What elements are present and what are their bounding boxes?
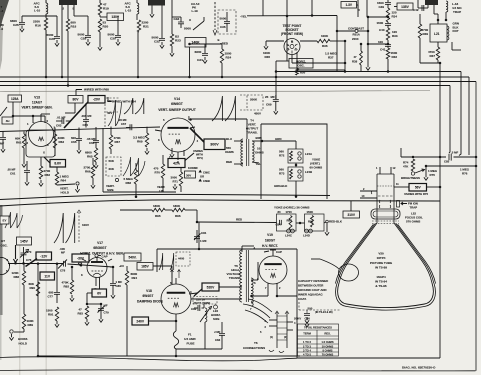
svg-text:C90: C90 (305, 317, 311, 321)
svg-text:6800: 6800 (195, 50, 202, 54)
ground above table (305, 322, 309, 327)
svg-text:COAT.: COAT. (298, 297, 307, 301)
coil L23 horiz size (203, 304, 205, 308)
box 540V (124, 253, 141, 261)
capacitor C66 (95, 127, 97, 140)
svg-text:C78: C78 (60, 269, 66, 273)
svg-text:310V: 310V (348, 213, 356, 217)
resistor R50 label (296, 69, 299, 76)
svg-text:=RED: =RED (220, 42, 229, 46)
svg-text:HOLD: HOLD (61, 191, 70, 195)
switch diagonal (193, 21, 204, 30)
B+ bus wire 3 (0, 81, 476, 83)
svg-text:C25: C25 (13, 23, 19, 27)
waveform curves near vert size (123, 157, 145, 176)
capacitor C25 (21, 16, 23, 22)
scan shadow left edge middle (0, 205, 3, 315)
svg-text:DAMPING DIODE: DAMPING DIODE (137, 300, 163, 304)
ground arrow near V14 pins (173, 184, 177, 190)
resistors R95 R96 horizontal (120, 209, 152, 211)
svg-text:C66: C66 (89, 141, 95, 145)
faint crease line below bus (0, 91, 430, 92)
box 185V (137, 263, 153, 271)
IF can secondary wire (451, 42, 453, 50)
svg-text:L24C: L24C (285, 234, 292, 238)
svg-text:R70: R70 (155, 171, 161, 175)
svg-text:V17: V17 (97, 241, 103, 245)
V19 bottom pins (267, 284, 269, 297)
svg-text:1.5 OHMS: 1.5 OHMS (321, 340, 333, 344)
ion trap (397, 201, 400, 208)
svg-text:L21: L21 (434, 32, 440, 36)
big sawtooth waveform (212, 96, 235, 121)
yoke coil L24B (288, 167, 303, 181)
capacitor C39 (387, 0, 389, 2)
yoke horiz cell L24D (305, 214, 325, 231)
wire x276 through bus to C69 (275, 61, 277, 99)
box 56V (394, 186, 409, 188)
wire between yoke horiz cells (296, 222, 305, 224)
svg-text:R71: R71 (173, 180, 179, 184)
svg-text:R62: R62 (45, 173, 51, 177)
svg-text:6BG6GT: 6BG6GT (93, 246, 106, 250)
svg-text:R38: R38 (352, 60, 358, 64)
capacitor C76 variable (23, 247, 25, 253)
svg-text:WIRED WITH R68: WIRED WITH R68 (84, 88, 109, 92)
outer page border right (475, 82, 477, 371)
box 11V thick (40, 272, 55, 280)
svg-text:4400: 4400 (178, 257, 185, 261)
brightness network wire (400, 148, 402, 157)
svg-text:-20V: -20V (93, 98, 101, 102)
resistor R92 (71, 267, 73, 280)
resistor R63 (54, 128, 56, 135)
svg-text:1 TO 2: 1 TO 2 (303, 340, 311, 344)
svg-text:C30: C30 (110, 37, 116, 41)
svg-text:R32: R32 (392, 55, 398, 59)
B+ bus wire 4 (0, 85, 450, 87)
V18 cathode wire and fuse F1 (175, 314, 177, 331)
svg-text:11V: 11V (44, 274, 50, 278)
socket right wire resistor R36 (300, 40, 317, 42)
capacitor C65 (78, 128, 80, 139)
resistor R66 (92, 158, 94, 165)
svg-text:L-19: L-19 (192, 9, 199, 13)
scan shadow top-left corner (0, 0, 9, 30)
svg-text:R93: R93 (78, 312, 84, 316)
left waveform curves (5, 212, 23, 228)
svg-text:VARIES WITH R75: VARIES WITH R75 (404, 192, 428, 196)
box -30V thick (72, 254, 89, 262)
wire between yoke coils (295, 163, 297, 167)
box 125A (8, 95, 22, 102)
svg-text:HOLD: HOLD (19, 342, 28, 346)
wire 125A to tube top (12, 102, 14, 116)
svg-text:10 OHMS: 10 OHMS (322, 344, 334, 348)
capacitor C42 (418, 7, 428, 9)
svg-text:CONTRAST: CONTRAST (348, 27, 364, 31)
resistor R67 (110, 127, 112, 136)
svg-text:.005 MF: .005 MF (81, 114, 92, 118)
spine rung to C41 (368, 43, 388, 45)
svg-text:GRN-BLK: GRN-BLK (274, 184, 288, 188)
svg-text:R73: R73 (279, 172, 285, 176)
box HORIZ OSC (289, 59, 313, 69)
capacity pickup ellipse (339, 264, 359, 281)
inner border left edge x297 (296, 249, 298, 358)
capacitor C80 (112, 267, 114, 283)
svg-text:OSC.: OSC. (1, 244, 8, 248)
capacitor C90 (304, 314, 310, 316)
left edge box 4H (2, 117, 13, 124)
svg-text:X: X (189, 18, 191, 22)
svg-text:150K: 150K (307, 210, 314, 214)
svg-text:6W6GT: 6W6GT (171, 102, 184, 106)
svg-text:R61: R61 (16, 141, 22, 145)
T6 cable curves (243, 299, 272, 323)
V17 top cap (95, 254, 98, 257)
page crease vertical left (19, 0, 20, 375)
tube V17 (87, 258, 107, 278)
svg-text:520V: 520V (207, 285, 216, 289)
svg-text:SIZE: SIZE (107, 188, 114, 192)
svg-text:C79: C79 (104, 311, 110, 315)
svg-text:C42: C42 (413, 8, 419, 12)
svg-text:VERT. SWEEP GEN.: VERT. SWEEP GEN. (21, 106, 52, 110)
yoke enclosure box (261, 124, 327, 199)
svg-text:WITH: WITH (196, 153, 203, 157)
svg-text:EY: EY (2, 218, 6, 222)
resistor R62 (40, 157, 42, 166)
svg-text:T6: T6 (254, 341, 258, 345)
svg-text:MF: MF (61, 251, 65, 255)
inner border bottom edge (297, 357, 440, 359)
svg-text:MF: MF (0, 142, 4, 146)
long wire x38 to bottom bus (37, 264, 39, 356)
svg-text:C80: C80 (116, 284, 122, 288)
svg-text:-4: -4 (1, 9, 4, 13)
box 80V (68, 96, 83, 104)
V17 pins (82, 259, 86, 261)
svg-text:C33: C33 (174, 17, 180, 21)
svg-text:2000: 2000 (352, 37, 359, 41)
capacitor C79 (100, 304, 102, 308)
svg-text:R35: R35 (265, 55, 271, 59)
wire node top-left (22, 15, 57, 17)
svg-text:R33: R33 (392, 34, 398, 38)
resistor R16 (44, 18, 47, 30)
svg-text:R36: R36 (322, 44, 328, 48)
svg-text:C81: C81 (201, 231, 207, 235)
B+ bus wire 2 (0, 76, 469, 78)
yoke coil L24A (288, 149, 303, 163)
svg-text:C39: C39 (379, 5, 385, 9)
svg-text:OR: OR (200, 175, 204, 179)
box 310V (350, 201, 352, 211)
svg-text:RED: RED (226, 160, 232, 164)
svg-text:L24D: L24D (303, 234, 310, 238)
dashed waveform box 50K (106, 157, 121, 176)
dashed box 150 1A (193, 297, 217, 305)
label 100V waveform (54, 213, 75, 243)
svg-text:100K: 100K (321, 34, 329, 38)
socket bottom wires (291, 55, 293, 64)
svg-text:C84: C84 (276, 223, 282, 227)
resistor R21 (137, 20, 140, 32)
svg-text:180K: 180K (153, 204, 161, 208)
svg-text:C26: C26 (49, 37, 55, 41)
svg-text:12AU7: 12AU7 (32, 101, 42, 105)
svg-text:C65: C65 (71, 140, 77, 144)
resistor R61 (23, 132, 25, 135)
svg-text:R66: R66 (85, 170, 91, 174)
svg-text:30V: 30V (186, 173, 191, 177)
svg-text:56V: 56V (415, 186, 422, 190)
dashed capacity connection (299, 302, 341, 310)
tube V16 fragment (0, 257, 10, 274)
wire tube pin to bus (61, 5, 63, 77)
svg-text:R24: R24 (226, 56, 232, 60)
svg-text:R34: R34 (392, 15, 398, 19)
svg-text:25: 25 (265, 95, 269, 99)
svg-text:(IN TS-94 & 95): (IN TS-94 & 95) (315, 311, 333, 314)
resistor R18 (67, 5, 69, 19)
svg-text:VARIES: VARIES (193, 149, 203, 153)
svg-text:INNER AQUADAG: INNER AQUADAG (298, 293, 323, 297)
svg-text:20K: 20K (109, 167, 115, 171)
svg-text:570 OHMS: 570 OHMS (406, 220, 420, 224)
svg-text:(BOTT. TERM): (BOTT. TERM) (194, 302, 211, 305)
svg-text:R89: R89 (28, 323, 34, 327)
tube stub V10 plate (59, 0, 77, 5)
wire x287 down (286, 0, 288, 61)
box 300V thick (204, 139, 225, 150)
heavy pointer -12V (26, 259, 38, 267)
resistor R37b (436, 47, 439, 60)
contrast spine (367, 17, 369, 64)
svg-text:1 MF: 1 MF (200, 239, 207, 243)
wire right edge stub (357, 0, 359, 10)
box 6V thick (92, 289, 107, 297)
svg-text:CAP: CAP (276, 250, 282, 254)
brightness pot (411, 172, 414, 175)
capacitor C41 (387, 40, 389, 44)
socket left wire and ground (266, 40, 284, 42)
svg-text:R21: R21 (143, 24, 149, 28)
svg-text:R98: R98 (308, 220, 314, 224)
capacitor C69 25MF (275, 95, 277, 99)
svg-text:GT: GT (1, 239, 5, 243)
svg-text:VERT. SWEEP OUTPUT: VERT. SWEEP OUTPUT (158, 108, 197, 112)
svg-text:WIRED WITH R64: WIRED WITH R64 (112, 100, 136, 104)
svg-text:R76: R76 (462, 172, 468, 176)
voltage box 130V (99, 15, 101, 17)
svg-text:C69: C69 (266, 103, 272, 107)
svg-text:MF: MF (104, 304, 108, 308)
svg-text:L24B: L24B (305, 170, 312, 174)
box 135V (397, 3, 413, 10)
dashed box 200K (247, 95, 263, 110)
svg-text:C32: C32 (154, 40, 160, 44)
capacitor C67 on main wire (130, 124, 132, 130)
waveform curves right of V13 (108, 100, 122, 126)
left edge box fragment (0, 216, 9, 224)
section rule line B (0, 200, 440, 206)
tube V14 pin stubs (155, 130, 161, 131)
svg-text:C61: C61 (10, 172, 16, 176)
svg-text:R68: R68 (126, 181, 132, 185)
section rule line A (0, 194, 330, 199)
svg-text:6W4GT: 6W4GT (143, 294, 154, 298)
arrow wire from 145V (13, 245, 17, 263)
svg-text:1500: 1500 (377, 21, 384, 25)
svg-text:RED-BLK: RED-BLK (329, 220, 343, 224)
tube stub pin ground (151, 6, 153, 12)
svg-text:R96: R96 (175, 214, 181, 218)
svg-text:R50: R50 (300, 71, 306, 75)
svg-text:2 TO 3: 2 TO 3 (303, 344, 311, 348)
svg-text:OSC.: OSC. (297, 63, 304, 67)
svg-text:RES.: RES. (324, 332, 331, 336)
svg-text:R95: R95 (155, 214, 161, 218)
svg-text:R75: R75 (430, 173, 436, 177)
capacitor C64 (85, 103, 87, 119)
wire yoke bottom GRN-BLK (295, 181, 297, 198)
svg-text:80V: 80V (72, 98, 79, 102)
resistor R23 (170, 34, 173, 46)
svg-text:1.3V: 1.3V (345, 3, 352, 7)
B+ bus wire 1 (276, 71, 461, 73)
wire y266 left to R94 (120, 265, 124, 267)
svg-text:C83: C83 (215, 338, 221, 342)
capacitor C30 (117, 16, 119, 35)
capacitor C40 (387, 16, 390, 19)
svg-text:X: X (43, 151, 45, 155)
wire V14 plate to T4 (188, 118, 247, 120)
svg-text:R65: R65 (87, 155, 93, 159)
svg-text:500: 500 (308, 307, 313, 311)
sawtooth top middle (124, 98, 144, 114)
capacitor C78 in series (64, 261, 66, 267)
HV cage box top (157, 248, 297, 250)
svg-text:GROUND COAT AND: GROUND COAT AND (298, 288, 327, 292)
svg-text:-0: -0 (1, 27, 4, 31)
capacitor C77 (56, 264, 58, 292)
svg-text:240V: 240V (136, 319, 145, 323)
svg-text:TERM: TERM (303, 332, 311, 336)
svg-text:R92: R92 (64, 285, 70, 289)
svg-text:OHMS: OHMS (255, 151, 264, 155)
resistor R19 (99, 0, 101, 3)
wire L23 bottom (204, 322, 206, 349)
inner border right edge vertical x440 (439, 63, 441, 358)
svg-text:R39: R39 (423, 32, 429, 36)
svg-text:LIN.: LIN. (159, 189, 165, 193)
svg-text:20KV: 20KV (294, 317, 301, 321)
transformer T4 (241, 139, 243, 166)
svg-text:C29: C29 (81, 37, 87, 41)
svg-text:60 OHMS: 60 OHMS (310, 166, 323, 170)
CRT bell flare left (335, 223, 377, 284)
svg-text:HORIZ.: HORIZ. (18, 337, 28, 341)
svg-text:(2): (2) (284, 336, 287, 339)
svg-text:70 OHMS: 70 OHMS (322, 352, 334, 356)
major wire x103 bend (102, 128, 104, 192)
svg-text:16TP4: 16TP4 (377, 256, 386, 260)
main wire section3 left (8, 263, 63, 265)
V19 top cap wire (272, 250, 274, 256)
svg-text:TRANS.: TRANS. (246, 131, 257, 135)
svg-text:180K: 180K (173, 204, 181, 208)
svg-text:PICTURE TUBE: PICTURE TUBE (370, 261, 392, 265)
svg-text:1/4 AMP.: 1/4 AMP. (184, 337, 196, 341)
capacitor C82 (198, 305, 200, 311)
svg-text:-12V: -12V (40, 254, 48, 258)
T6 terminal component (277, 312, 287, 348)
wire x337 down to bus (336, 16, 338, 72)
svg-text:C36: C36 (220, 25, 226, 29)
tube V13 (26, 130, 55, 157)
svg-text:.5 MF: .5 MF (451, 151, 458, 155)
svg-text:R72: R72 (279, 154, 285, 158)
page bottom wavy rule (0, 357, 297, 361)
svg-text:TRANS.: TRANS. (229, 276, 240, 280)
tube V14 (161, 118, 195, 152)
resistor R20 (98, 19, 101, 32)
wire x312 from top (311, 0, 313, 16)
svg-text:185V: 185V (141, 265, 149, 269)
dashed AGC line (214, 2, 216, 30)
wire C81 down to cage (198, 222, 200, 249)
resistor R65 (94, 148, 97, 162)
T6 resistance table (298, 324, 339, 356)
svg-text:R37: R37 (430, 54, 436, 58)
svg-text:47: 47 (354, 55, 358, 59)
resistor R24 (221, 44, 223, 49)
tube V16 stub (9, 264, 11, 267)
svg-text:DOT: DOT (453, 29, 459, 33)
svg-text:& TS-96: & TS-96 (375, 284, 387, 288)
svg-text:X: X (177, 160, 179, 164)
resistor R75 with ground (425, 166, 427, 174)
svg-text:R88: R88 (14, 275, 20, 279)
wire y63 to border (420, 62, 440, 64)
bottom chassis wire bus (38, 355, 300, 357)
svg-text:-YEL: -YEL (240, 15, 247, 19)
svg-text:R94: R94 (132, 276, 138, 280)
wire to RED-BLK terminal (324, 222, 326, 223)
dashed box C36 (218, 10, 236, 34)
svg-text:R64: R64 (61, 179, 67, 183)
resistor R91 (55, 307, 58, 321)
page bottom rule 2 (0, 370, 476, 371)
CRT neck input wires (360, 190, 377, 192)
svg-text:V14: V14 (174, 97, 180, 101)
box 42 percent thick (168, 159, 185, 168)
wire to RED right (196, 210, 198, 222)
wire to pickup (320, 259, 339, 269)
transformer T5 windings (240, 250, 242, 302)
cage up arrows (171, 270, 181, 279)
triangles C69C C69B (199, 170, 202, 173)
svg-text:C34: C34 (197, 58, 203, 62)
resistor R32 (386, 48, 389, 59)
svg-text:5000: 5000 (184, 27, 191, 31)
svg-text:1000MF: 1000MF (188, 166, 198, 170)
svg-text:C40: C40 (379, 28, 385, 32)
capacitor C85 (449, 154, 451, 161)
svg-text:450V: 450V (254, 112, 261, 116)
